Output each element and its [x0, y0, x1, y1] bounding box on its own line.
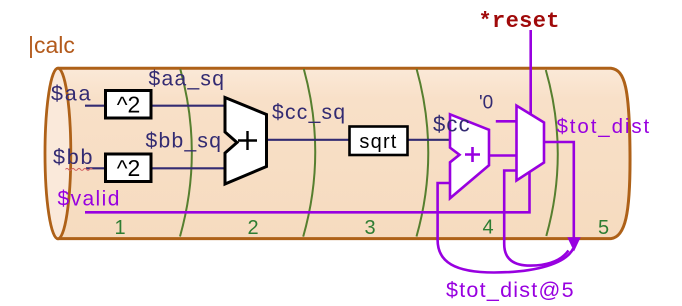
- stage divider 4/5: [546, 70, 558, 236]
- svg-text:sqrt: sqrt: [359, 131, 397, 153]
- stage divider 1/2: [180, 69, 192, 236]
- wire mux output $tot_dist with drop down: [544, 142, 574, 239]
- svg-text:$bb: $bb: [53, 145, 94, 169]
- wire ^2 to adder lower input $bb_sq: [152, 167, 226, 169]
- svg-text:3: 3: [364, 217, 375, 239]
- wire reset select into mux: [529, 30, 532, 115]
- wire ^2 to adder upper input $aa_sq: [152, 105, 226, 107]
- svg-text:$tot_dist@5: $tot_dist@5: [446, 278, 575, 302]
- pipeline adder U2 (stage 4, purple): [450, 114, 489, 198]
- adder U1 (stage 2): [225, 98, 267, 185]
- svg-text:^2: ^2: [117, 155, 141, 181]
- svg-text:|calc: |calc: [28, 32, 75, 58]
- plus sign in adder U2: [465, 147, 480, 162]
- svg-text:1: 1: [114, 217, 125, 239]
- pipeline cylinder body: [46, 68, 630, 238]
- squiggle under $bb: [66, 168, 93, 170]
- sqrt unit: [350, 127, 408, 156]
- svg-text:5: 5: [598, 217, 609, 239]
- mux (stage 4/5, purple): [517, 106, 545, 181]
- squaring unit ^2 (upper): [106, 91, 152, 119]
- wire '0 constant to mux: [496, 120, 517, 123]
- svg-text:$tot_dist: $tot_dist: [557, 115, 652, 138]
- wire $valid with riser to mux: [85, 172, 530, 212]
- wire sqrt output $cc to pipeline adder: [408, 139, 451, 141]
- stage divider 2/3: [303, 69, 315, 237]
- wire adder output $cc_sq to sqrt: [267, 139, 350, 141]
- svg-text:$aa: $aa: [51, 82, 92, 106]
- pipeline left end cap: [45, 68, 71, 239]
- svg-text:$cc_sq: $cc_sq: [272, 101, 346, 124]
- squaring unit ^2 (lower): [106, 154, 152, 182]
- svg-text:*reset: *reset: [479, 9, 560, 34]
- wire $bb to ^2: [86, 167, 105, 169]
- wire pipeline adder output to mux: [489, 154, 517, 157]
- plus sign in adder U1: [238, 131, 257, 150]
- svg-text:4: 4: [482, 217, 493, 239]
- svg-text:'0: '0: [479, 93, 493, 114]
- svg-text:^2: ^2: [117, 92, 141, 118]
- svg-text:$cc: $cc: [433, 112, 471, 137]
- arrowhead of feedback: [567, 237, 580, 251]
- svg-text:2: 2: [247, 217, 258, 239]
- stage divider 3/4: [417, 69, 429, 237]
- feedback loop into mux: [504, 171, 568, 266]
- svg-text:$valid: $valid: [58, 188, 121, 211]
- feedback loop into pipeline adder: [438, 183, 574, 273]
- svg-text:$bb_sq: $bb_sq: [146, 130, 223, 153]
- svg-text:$aa_sq: $aa_sq: [149, 68, 226, 91]
- wire $aa to ^2: [85, 105, 105, 107]
